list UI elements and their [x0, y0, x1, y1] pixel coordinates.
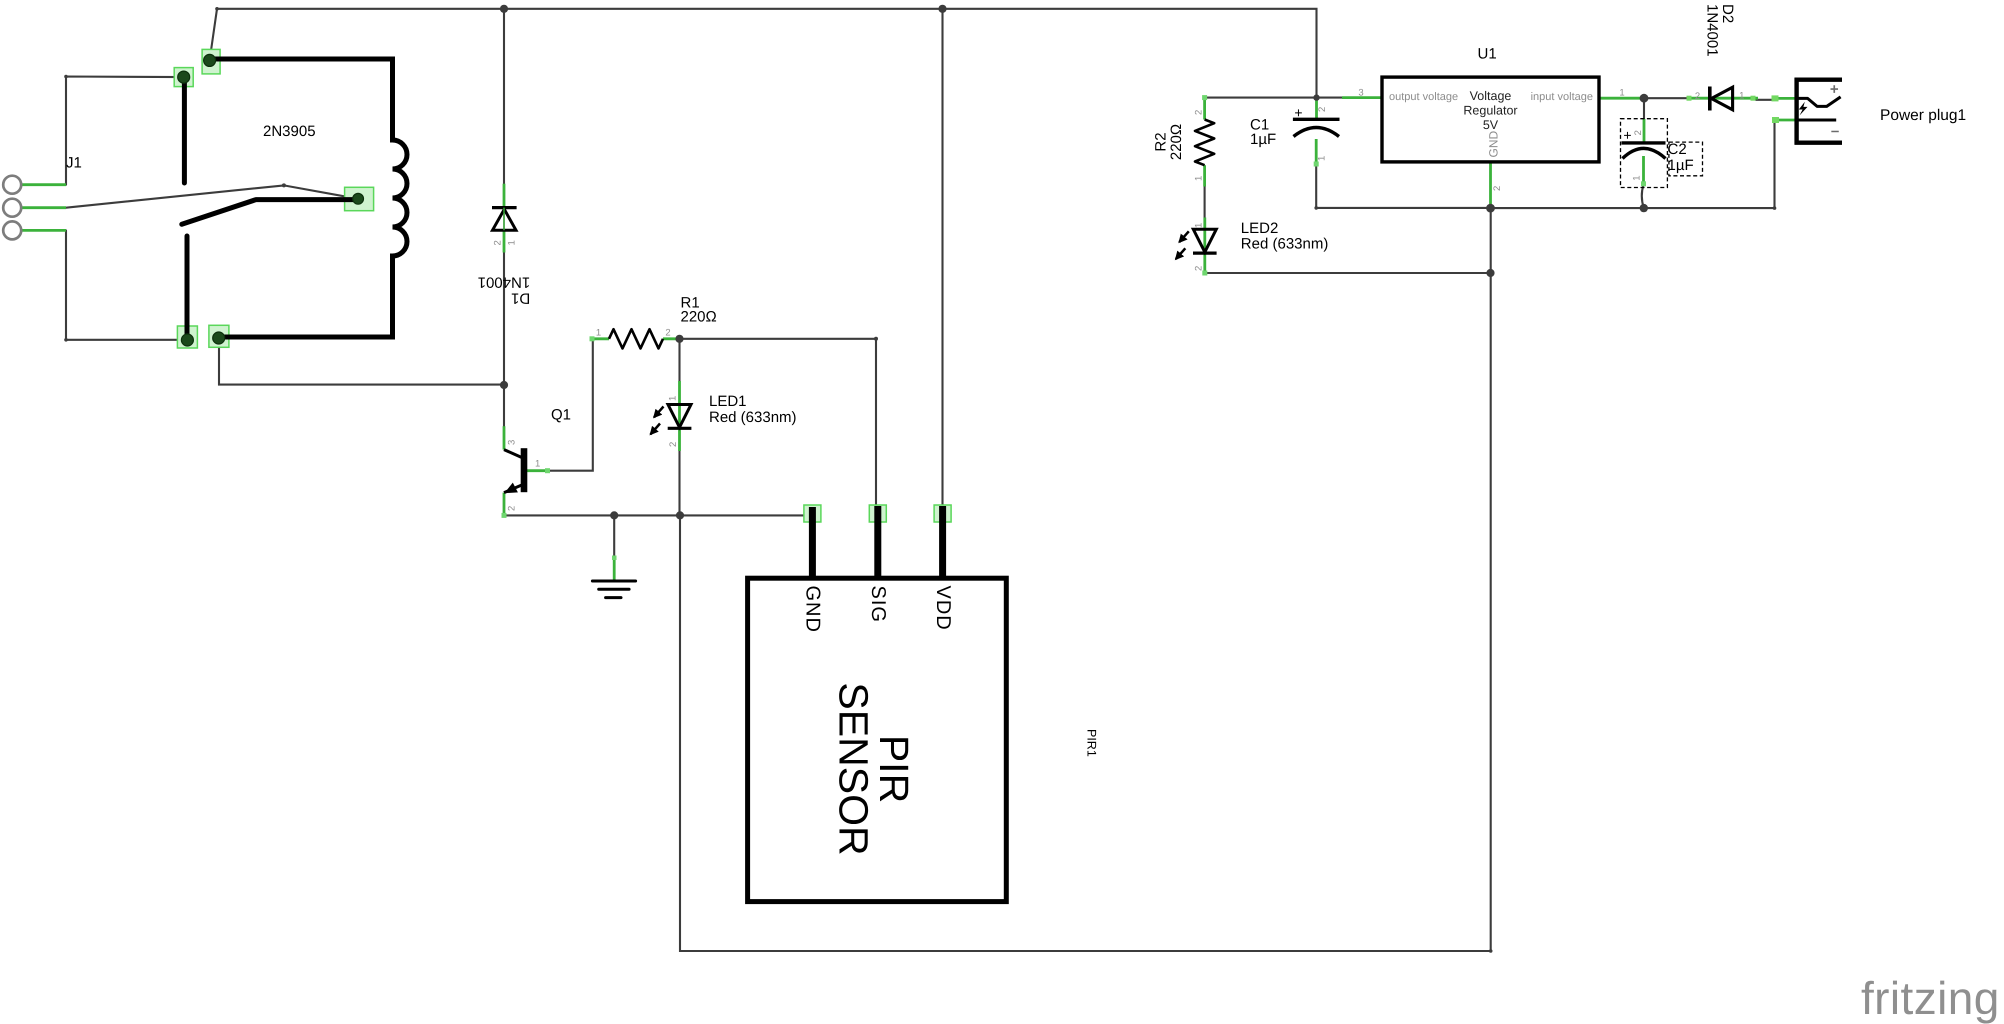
svg-text:Red (633nm): Red (633nm) [1241, 236, 1329, 253]
PIR pin VDD [939, 506, 946, 580]
pin nub D2 right [1751, 96, 1756, 101]
pin stub D1 pin1 [503, 230, 506, 252]
label PIR1 [1085, 729, 1099, 757]
bend dot gnd plug corner [1773, 206, 1777, 210]
pin nub LED2 bottom end [1202, 271, 1207, 276]
pin stub LED1 anode [678, 381, 681, 427]
wire D2 to plug overlay [1756, 99, 1773, 101]
transistor Q1 emitter arrow [504, 483, 518, 494]
pin nub R1 pin1 end [590, 336, 595, 341]
svg-text:1: 1 [1632, 176, 1643, 181]
LED2 emission arrow 1 [1179, 231, 1189, 242]
svg-text:+: + [1294, 104, 1302, 120]
svg-text:Power plug1: Power plug1 [1880, 107, 1966, 124]
svg-text:Q1: Q1 [551, 406, 571, 423]
wire relay coil bottom to D1 junction [219, 338, 504, 385]
pin stub LED2 anode [1203, 218, 1206, 253]
svg-text:1: 1 [1194, 223, 1205, 228]
svg-text:1: 1 [1317, 156, 1328, 161]
junction dot D1 bottom [500, 381, 508, 389]
relay pad dot top contact [178, 71, 190, 83]
resistor R2 zigzag vertical [1195, 120, 1214, 166]
wire C2 bottom link [1642, 185, 1644, 208]
svg-text:input voltage: input voltage [1531, 91, 1593, 103]
wire R2 top [1205, 97, 1317, 99]
connector J1 circle 1 [3, 176, 21, 194]
svg-text:220Ω: 220Ω [1168, 124, 1185, 160]
transistor Q1 emitter line [504, 485, 522, 493]
svg-text:2: 2 [1695, 91, 1700, 102]
relay pad common [345, 187, 374, 210]
svg-text:1: 1 [1739, 91, 1744, 102]
svg-text:output voltage: output voltage [1389, 91, 1458, 103]
LED1 emission arrow 1 [654, 407, 664, 418]
PIR pin label GND [802, 586, 824, 633]
diode D2 triangle [1711, 87, 1732, 110]
svg-text:fritzing: fritzing [1861, 972, 2000, 1024]
resistor R1 zigzag [609, 329, 663, 348]
svg-text:1: 1 [1194, 176, 1205, 181]
svg-text:J1: J1 [66, 155, 82, 172]
junction dot D2 left [1640, 94, 1649, 103]
pin stub Q1 pin2 [503, 493, 506, 516]
relay switch bottom contact bar [185, 236, 190, 338]
diode D1 cathode bar [492, 206, 517, 209]
relay pad top contact [174, 68, 193, 87]
svg-text:–: – [1831, 123, 1839, 140]
power plug lightning bolt [1799, 102, 1808, 116]
ground symbol bars [592, 581, 635, 598]
LED2 emission arrow 2 [1176, 248, 1186, 259]
pin nub plug plus [1772, 95, 1779, 101]
diode D1 inner pin line [503, 208, 505, 231]
PIR pin label SIG [867, 586, 889, 623]
svg-text:D1: D1 [511, 290, 530, 307]
svg-text:D2: D2 [1719, 4, 1736, 23]
pin stub R2 pin1 [1203, 165, 1206, 186]
bend dot R1 SIG corner [874, 337, 878, 341]
bend dot J1 pin2 wire [282, 183, 286, 187]
wire VDD vertical [941, 9, 943, 513]
pin stub J1 pin1 [22, 183, 67, 186]
svg-text:2: 2 [1317, 107, 1328, 112]
PIR SENSOR big label [831, 682, 918, 855]
junction dot top VDD [938, 5, 946, 13]
wire LED2 cathode bus [1205, 272, 1491, 274]
label D1 1N4001 rotated [478, 274, 531, 307]
svg-text:2: 2 [1194, 266, 1205, 271]
relay pad dot coil bottom [213, 332, 225, 344]
wire top power bus [210, 9, 1317, 98]
capacitor C2 plus plate [1622, 141, 1666, 144]
relay pad dot bottom contact [181, 334, 193, 346]
pin nub R2 top end [1202, 95, 1207, 100]
pin stub C1 pin2 [1315, 98, 1318, 120]
relay pad bottom contact [177, 326, 197, 348]
wire R2 to LED2 link [1204, 187, 1206, 218]
svg-text:1: 1 [1619, 88, 1624, 99]
pin stub D1 pin2 [503, 184, 506, 208]
connector J1 circle 2 [3, 199, 21, 217]
pin stub LED1 cathode [678, 429, 681, 452]
pin stub C1 pin1 [1315, 139, 1318, 165]
capacitor C2 label dashed box [1669, 142, 1703, 176]
voltage regulator U1 box [1382, 77, 1599, 162]
wire emitter ground bus [504, 514, 812, 516]
svg-text:1N4001: 1N4001 [1704, 4, 1721, 57]
junction dot LED1 bottom [676, 511, 684, 519]
pin stub Q1 pin1 [526, 469, 549, 472]
svg-text:1N4001: 1N4001 [478, 274, 531, 291]
wire D2 through green [1689, 97, 1758, 100]
pin stub J1 pin2 [22, 206, 67, 209]
svg-text:1µF: 1µF [1250, 131, 1276, 148]
relay switch top contact bar [182, 80, 187, 183]
pin stub LED2 cathode [1203, 253, 1206, 273]
pin stub R1 pin1 [592, 337, 609, 340]
wire GND bus right [1491, 120, 1775, 208]
svg-text:SIG: SIG [867, 586, 889, 623]
svg-text:2: 2 [1194, 110, 1205, 115]
PIR pin label VDD [932, 586, 954, 631]
junction dot U1 GND [1486, 204, 1495, 213]
svg-text:U1: U1 [1478, 45, 1497, 62]
power plug bottom line [1795, 140, 1843, 144]
bend dot J1 pin1 wire [64, 75, 68, 79]
PIR pad SIG [869, 505, 886, 522]
pin nub ground stub top [612, 556, 617, 561]
PIR sensor box PIR1 [748, 578, 1007, 901]
pin stub Q1 pin3 [503, 426, 506, 449]
transistor Q1 collector line [504, 450, 522, 458]
svg-text:PIR: PIR [871, 735, 917, 803]
wire D1 branch vertical [503, 9, 505, 426]
svg-text:2: 2 [507, 506, 518, 511]
wire U1 pin1 to D2 [1644, 97, 1689, 99]
LED2 cathode bar [1193, 252, 1217, 255]
capacitor C1 plus plate [1293, 118, 1340, 121]
pin nub C2 pin1 end [1641, 181, 1646, 186]
pin stub ground symbol [613, 556, 616, 580]
pin stub J1 pin3 [22, 229, 67, 232]
relay pad dot common [353, 193, 364, 204]
U1 text GND rotated [1487, 131, 1501, 158]
label D2 1N4001 rotated [1704, 4, 1737, 57]
svg-text:GND: GND [802, 586, 824, 633]
svg-text:2: 2 [665, 328, 670, 339]
junction dot R1 LED1 [675, 335, 683, 343]
wire gnd loop left bottom right [680, 208, 1491, 951]
svg-text:2: 2 [668, 442, 679, 447]
LED2 triangle [1193, 229, 1216, 252]
svg-text:VDD: VDD [932, 586, 954, 631]
pin stub plug plus [1773, 97, 1796, 100]
pin stub U1 pin2 [1489, 162, 1492, 208]
wire LED1 cathode down [678, 451, 680, 515]
PIR pad VDD [934, 505, 951, 522]
svg-text:Regulator: Regulator [1463, 104, 1517, 118]
pin stub plug minus [1775, 119, 1796, 122]
power plug top line [1795, 77, 1843, 81]
pin nub Q1 base end [545, 468, 550, 473]
transistor Q1 base bar [521, 448, 528, 492]
wire R1 junction to LED1 anode [678, 339, 680, 381]
svg-text:2: 2 [493, 240, 504, 245]
svg-text:R2: R2 [1153, 132, 1170, 151]
svg-text:C2: C2 [1668, 141, 1687, 158]
diode D1 triangle [493, 209, 517, 230]
power plug minus contact [1797, 119, 1837, 122]
relay K1 coil outline with bumps [210, 59, 407, 337]
wire J1 pin1 to relay top contact [66, 77, 184, 185]
svg-text:3: 3 [1358, 87, 1363, 98]
svg-text:Voltage: Voltage [1470, 89, 1512, 103]
capacitor C2 selection dashed box [1621, 119, 1668, 188]
junction dot top D1 [500, 5, 508, 13]
wire C2 top link [1643, 98, 1645, 119]
capacitor C1 curved plate [1294, 128, 1340, 137]
capacitor C2 curved plate [1623, 148, 1666, 158]
wire ground stem [613, 515, 615, 557]
svg-text:1: 1 [596, 328, 601, 339]
connector J1 circle 3 [3, 221, 21, 239]
pin stub U1 pin1 wire [1599, 97, 1641, 100]
pin stub R2 pin2 [1203, 98, 1206, 120]
relay pad coil top [202, 49, 220, 74]
pin stub C2 pin2 [1643, 119, 1646, 143]
junction dot LED2 bus [1486, 269, 1494, 277]
svg-text:1µF: 1µF [1668, 157, 1694, 174]
PIR pad GND [804, 505, 821, 522]
wire R1 to PIR SIG [680, 339, 877, 513]
svg-text:2: 2 [1492, 186, 1503, 191]
wire U1 pin3 link [1317, 97, 1343, 99]
pin nub C1 pin1 end [1314, 162, 1319, 167]
junction dot C1 top [1313, 94, 1319, 100]
svg-text:SENSOR: SENSOR [831, 682, 877, 855]
junction dot C2 bottom [1640, 204, 1648, 212]
svg-text:1: 1 [507, 240, 518, 245]
svg-text:1: 1 [535, 459, 540, 470]
bend dot J1 pin3 wire [64, 338, 68, 342]
LED1 triangle [668, 405, 691, 428]
junction dot ground [610, 511, 618, 519]
relay switch arm [182, 200, 358, 225]
pin stub U1 pin3 wire [1342, 96, 1382, 99]
wire Q1 base to R1 [549, 339, 593, 471]
svg-text:2N3905: 2N3905 [263, 123, 316, 140]
svg-text:LED1: LED1 [709, 393, 747, 410]
pin nub Q1 emitter end [502, 513, 507, 518]
svg-text:PIR1: PIR1 [1085, 729, 1099, 757]
svg-text:+: + [1830, 81, 1839, 98]
svg-text:220Ω: 220Ω [681, 309, 717, 326]
wire J1 pin2 to relay common [66, 185, 358, 207]
wire J1 pin3 to relay bottom contact [66, 230, 187, 339]
power plug center pin contact [1797, 97, 1841, 107]
pin stub R1 pin2 [663, 337, 680, 340]
svg-text:5V: 5V [1483, 118, 1499, 132]
LED1 emission arrow 2 [651, 424, 661, 435]
PIR pin GND [809, 507, 816, 580]
relay pad coil bottom [209, 325, 229, 347]
svg-text:3: 3 [507, 440, 518, 445]
svg-text:1: 1 [668, 396, 679, 401]
svg-text:Red (633nm): Red (633nm) [709, 409, 797, 426]
pin nub plug minus [1772, 117, 1779, 123]
PIR pin SIG [874, 506, 881, 580]
pin nub D2 mid [1687, 96, 1692, 101]
bend dot top wire left [215, 7, 219, 11]
pin stub C2 pin1 [1642, 156, 1645, 185]
LED1 cathode bar [668, 427, 692, 430]
svg-text:LED2: LED2 [1241, 220, 1279, 237]
diode D2 cathode bar [1708, 87, 1712, 111]
svg-text:+: + [1623, 127, 1631, 143]
bend dot bottom right corner [1489, 949, 1493, 953]
svg-text:2: 2 [1633, 130, 1644, 135]
label R2 rotated [1153, 124, 1186, 160]
bend dot C1 gnd corner [1314, 206, 1318, 210]
wire C1 bottom to GND bus [1316, 165, 1491, 208]
svg-text:GND: GND [1487, 131, 1501, 158]
relay pad dot coil top [204, 54, 216, 66]
power plug left bar [1794, 78, 1798, 145]
